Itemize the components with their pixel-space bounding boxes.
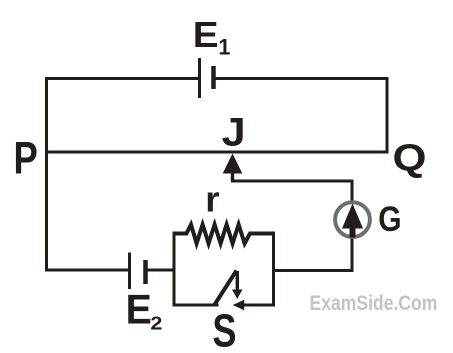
- svg-text:E: E: [126, 286, 152, 333]
- svg-text:1: 1: [218, 35, 230, 60]
- svg-text:E: E: [193, 15, 219, 55]
- svg-text:Q: Q: [393, 137, 427, 179]
- svg-text:ExamSide.Com: ExamSide.Com: [310, 291, 438, 315]
- svg-text:J: J: [222, 111, 246, 155]
- svg-text:G: G: [378, 199, 401, 239]
- svg-text:r: r: [205, 179, 219, 219]
- svg-text:2: 2: [150, 314, 162, 335]
- svg-text:S: S: [212, 305, 236, 353]
- svg-text:P: P: [13, 133, 37, 184]
